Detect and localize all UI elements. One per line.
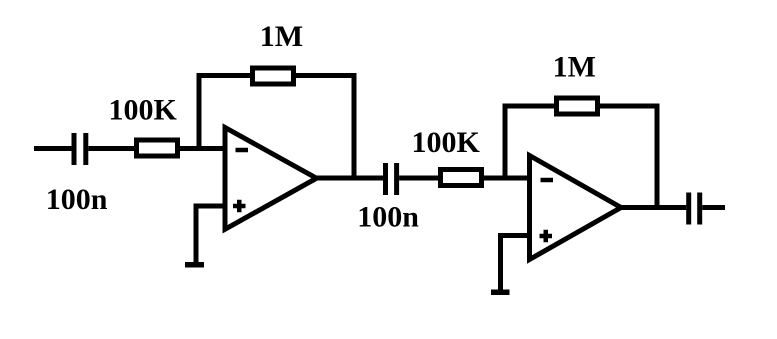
wire C2 to R3 (399, 176, 440, 181)
svg-text:100n: 100n (46, 183, 108, 216)
wire feedback left leg U2 (505, 106, 554, 178)
ground G1 (185, 262, 204, 268)
wire feedback left leg U1 (199, 76, 250, 149)
op-amp U1 (225, 128, 317, 230)
minus sign U2 (541, 178, 554, 183)
resistor R2 (253, 68, 294, 84)
wire non-inverting input U2 (501, 236, 530, 291)
resistor R4 (557, 98, 598, 114)
resistor R3 (441, 170, 482, 186)
svg-text:1M: 1M (260, 20, 303, 53)
wire R1 to U1 inverting input (180, 146, 226, 151)
wire U1 output (317, 176, 384, 181)
resistor R1 (137, 140, 178, 156)
ground G2 (491, 290, 510, 296)
wire U2 output (621, 205, 686, 210)
wire C1 to R1 (88, 146, 136, 151)
minus sign U1 (236, 148, 249, 153)
plus sign U1 (233, 200, 246, 213)
output wire (702, 205, 725, 210)
svg-text:1M: 1M (553, 50, 596, 83)
wire non-inverting input U1 (196, 206, 226, 263)
wire feedback right leg U2 (600, 106, 657, 208)
capacitor C3 (689, 193, 700, 225)
input wire (34, 146, 72, 151)
plus sign U2 (540, 230, 553, 243)
wire feedback right leg U1 (296, 76, 354, 179)
op-amp U2 (530, 156, 622, 260)
wire R3 to U2 inverting input (484, 176, 530, 181)
svg-text:100n: 100n (357, 200, 419, 233)
capacitor C2 (386, 163, 397, 195)
capacitor C1 (74, 133, 86, 165)
svg-text:100K: 100K (109, 93, 178, 126)
svg-text:100K: 100K (412, 126, 481, 159)
